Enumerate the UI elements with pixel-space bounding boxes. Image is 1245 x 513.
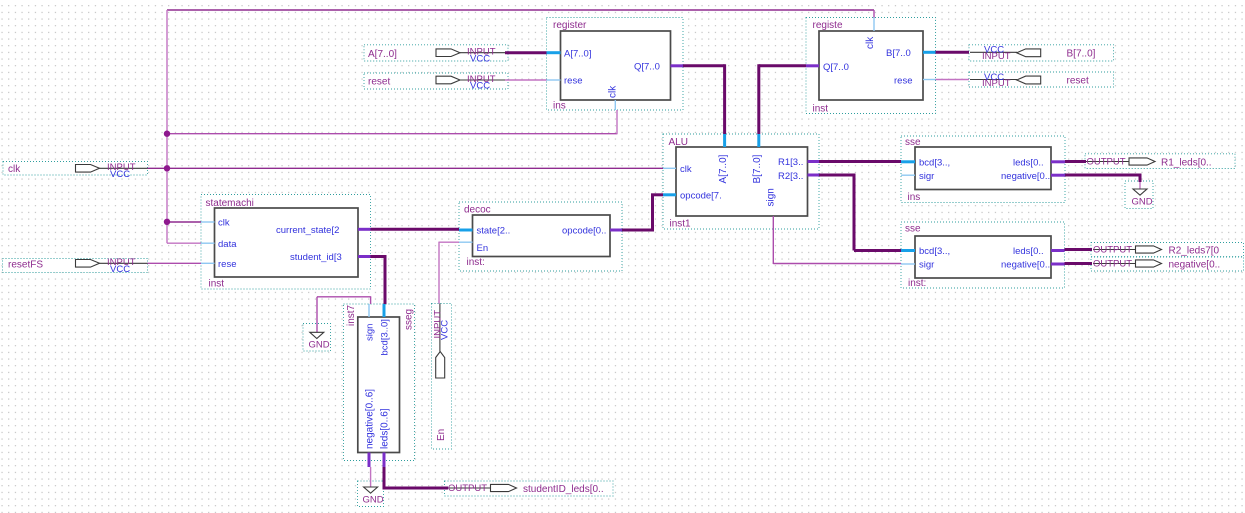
svg-text:leds[0..: leds[0.. (1013, 157, 1044, 168)
svg-text:VCC: VCC (470, 81, 490, 92)
svg-text:ins: ins (908, 192, 921, 203)
svg-text:statemachi: statemachi (206, 198, 254, 209)
svg-text:bcd[3..0]: bcd[3..0] (379, 319, 390, 355)
svg-text:INPUT: INPUT (982, 78, 1011, 89)
svg-text:sigr: sigr (919, 260, 934, 271)
svg-text:OUTPUT: OUTPUT (1093, 245, 1132, 256)
svg-text:En: En (477, 243, 489, 254)
svg-text:R2_leds7[0: R2_leds7[0 (1169, 245, 1220, 256)
svg-text:B[7..0]: B[7..0] (752, 154, 763, 183)
svg-text:En: En (436, 429, 447, 441)
svg-text:OUTPUT: OUTPUT (448, 483, 487, 494)
svg-text:VCC: VCC (110, 264, 130, 275)
svg-text:INPUT: INPUT (982, 51, 1011, 62)
svg-text:negative[0..: negative[0.. (1001, 171, 1050, 182)
svg-text:clk: clk (608, 85, 619, 98)
svg-text:bcd[3..,: bcd[3.., (919, 157, 950, 168)
svg-text:leds[0..: leds[0.. (1013, 246, 1044, 257)
svg-text:inst1: inst1 (670, 219, 692, 230)
svg-text:register: register (553, 20, 587, 31)
svg-text:opcode[0..: opcode[0.. (562, 226, 606, 237)
svg-text:rese: rese (564, 76, 582, 87)
svg-text:inst:: inst: (908, 278, 926, 289)
svg-text:rese: rese (218, 259, 236, 270)
svg-text:sseg: sseg (404, 309, 415, 330)
svg-text:A[7..0]: A[7..0] (368, 49, 397, 60)
svg-text:GND: GND (1132, 197, 1153, 208)
svg-text:leds[0..6]: leds[0..6] (379, 408, 390, 449)
svg-text:state[2..: state[2.. (477, 226, 511, 237)
svg-text:negative[0..: negative[0.. (1001, 260, 1050, 271)
svg-text:GND: GND (309, 340, 330, 351)
svg-text:sse: sse (905, 137, 921, 148)
svg-text:OUTPUT: OUTPUT (1087, 157, 1126, 168)
svg-text:sign: sign (364, 324, 375, 341)
svg-text:clk: clk (680, 164, 692, 175)
svg-text:studentID_leds[0..: studentID_leds[0.. (523, 484, 604, 495)
svg-text:clk: clk (218, 218, 230, 229)
svg-text:A[7..0]: A[7..0] (564, 49, 591, 60)
svg-text:ALU: ALU (669, 137, 688, 148)
svg-text:inst: inst (813, 104, 829, 115)
svg-text:rese: rese (894, 76, 912, 87)
svg-text:sign: sign (766, 188, 777, 206)
svg-text:clk: clk (865, 36, 876, 49)
svg-text:bcd[3..,: bcd[3.., (919, 246, 950, 257)
svg-text:decoc: decoc (464, 205, 491, 216)
svg-text:A[7..0]: A[7..0] (718, 154, 729, 183)
svg-text:clk: clk (8, 164, 21, 175)
svg-text:VCC: VCC (470, 53, 490, 64)
svg-text:inst: inst (209, 279, 225, 290)
svg-text:R2[3..: R2[3.. (778, 171, 803, 182)
svg-text:negative[0..: negative[0.. (1169, 259, 1221, 270)
svg-text:registe: registe (813, 20, 843, 31)
svg-text:sse: sse (905, 224, 921, 235)
svg-text:student_id[3: student_id[3 (290, 252, 342, 263)
svg-text:opcode[7.: opcode[7. (680, 191, 722, 202)
svg-text:inst:: inst: (467, 257, 485, 268)
svg-text:sigr: sigr (919, 171, 934, 182)
svg-text:VCC: VCC (439, 320, 450, 340)
svg-text:ins: ins (553, 101, 566, 112)
svg-text:resetFS: resetFS (8, 260, 43, 271)
svg-text:data: data (218, 239, 237, 250)
svg-text:Q[7..0: Q[7..0 (634, 62, 660, 73)
svg-text:B[7..0: B[7..0 (886, 48, 911, 59)
svg-text:inst7: inst7 (346, 304, 357, 326)
svg-text:reset: reset (1067, 76, 1089, 87)
svg-text:current_state[2: current_state[2 (276, 225, 339, 236)
svg-text:VCC: VCC (110, 169, 130, 180)
svg-text:GND: GND (363, 495, 384, 506)
svg-text:B[7..0]: B[7..0] (1067, 48, 1096, 59)
svg-text:R1[3..: R1[3.. (778, 157, 803, 168)
svg-text:negative[0..6]: negative[0..6] (364, 389, 375, 449)
svg-text:OUTPUT: OUTPUT (1093, 259, 1132, 270)
svg-text:reset: reset (368, 76, 390, 87)
svg-text:Q[7..0: Q[7..0 (823, 62, 849, 73)
svg-text:R1_leds[0..: R1_leds[0.. (1161, 157, 1212, 168)
